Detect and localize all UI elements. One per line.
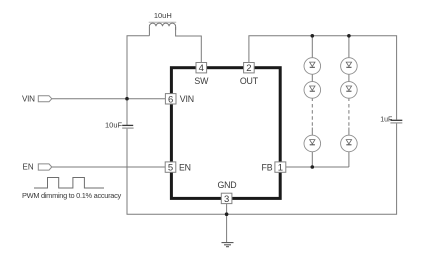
pin 4 box [196,63,207,73]
LED D3 [304,135,321,152]
wire inductor right terminal to pin 4 riser [176,27,202,63]
LED D2 [304,82,321,99]
junction node ground rail [225,212,229,216]
LED D1 [304,58,321,75]
IC U1 body [171,68,280,199]
svg-text:2: 2 [246,63,251,74]
LED string 2 wires [348,36,350,101]
junction node top rail 1 [311,34,315,38]
pin 1 box [275,162,286,172]
svg-text:SW: SW [194,76,209,86]
pin 2 box [244,63,255,73]
junction node VIN [125,97,129,101]
svg-text:1uF: 1uF [380,116,392,123]
svg-text:5: 5 [168,163,173,174]
wire pin 3 GND drop [226,204,228,243]
svg-text:VIN: VIN [180,94,194,104]
LED D5 [341,82,358,99]
EN input flag [38,164,52,170]
pin 6 box [165,94,176,104]
capacitor C1 10uF [122,124,133,126]
svg-text:4: 4 [199,63,204,74]
svg-text:10uH: 10uH [154,11,172,20]
junction node top rail 2 [347,34,351,38]
svg-text:PWM dimming to 0.1% accuracy: PWM dimming to 0.1% accuracy [22,191,122,200]
capacitor C2 1uF [390,119,402,121]
svg-text:3: 3 [224,194,229,205]
pin 3 box [221,193,232,203]
wire top rail from pin 2 riser to right rail down to C2 top [249,36,397,120]
VIN input flag [38,96,52,102]
ground symbol [222,243,234,247]
svg-text:GND: GND [218,180,237,190]
svg-text:10uF: 10uF [105,121,123,130]
LED D4 [341,58,358,75]
svg-text:6: 6 [168,94,173,105]
svg-text:1: 1 [278,163,283,174]
LED string 1 wires [311,36,313,101]
junction node FB [311,165,315,169]
svg-text:FB: FB [262,163,273,173]
svg-text:EN: EN [23,163,34,172]
svg-text:EN: EN [179,163,191,173]
wire EN input to pin 5 [52,166,165,168]
PWM waveform [34,178,104,189]
wire VIN input to pin 6 [52,98,166,100]
LED D6 [341,135,358,152]
svg-text:VIN: VIN [22,94,35,103]
wire vertical from VIN node up to inductor and down to C1 [127,36,149,125]
svg-text:OUT: OUT [240,76,259,86]
wire FB pin 1 to LED string bottoms [286,166,349,168]
pin 5 box [165,162,176,172]
wire C1 bottom to ground rail, bottom rail, right rail up to C2 [127,123,397,214]
inductor L 10uH [149,21,177,23]
